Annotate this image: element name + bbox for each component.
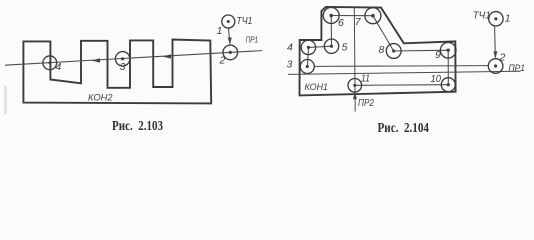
svg-text:6: 6 xyxy=(338,17,344,29)
svg-text:ТЧ1: ТЧ1 xyxy=(236,16,252,27)
svg-text:Рис. 2.104: Рис. 2.104 xyxy=(378,121,430,136)
svg-text:КОН2: КОН2 xyxy=(88,92,113,102)
svg-text:10: 10 xyxy=(431,73,442,85)
svg-text:2: 2 xyxy=(219,55,226,67)
svg-text:11: 11 xyxy=(361,73,370,85)
svg-text:ТЧ1: ТЧ1 xyxy=(473,10,491,21)
svg-text:Рис. 2.103: Рис. 2.103 xyxy=(112,119,163,134)
svg-text:2: 2 xyxy=(499,52,506,64)
svg-text:ПР1: ПР1 xyxy=(509,63,526,73)
svg-text:3: 3 xyxy=(287,58,293,70)
svg-text:ПР1: ПР1 xyxy=(246,35,259,44)
svg-text:9: 9 xyxy=(435,49,441,61)
svg-text:5: 5 xyxy=(342,42,348,54)
svg-text:ПР2: ПР2 xyxy=(358,97,374,109)
svg-text:1: 1 xyxy=(217,25,223,37)
svg-text:КОН1: КОН1 xyxy=(305,82,329,92)
svg-text:1: 1 xyxy=(505,13,511,25)
svg-text:8: 8 xyxy=(379,44,385,56)
svg-text:4: 4 xyxy=(56,61,62,73)
svg-text:3: 3 xyxy=(120,61,126,73)
svg-text:4: 4 xyxy=(287,42,293,54)
